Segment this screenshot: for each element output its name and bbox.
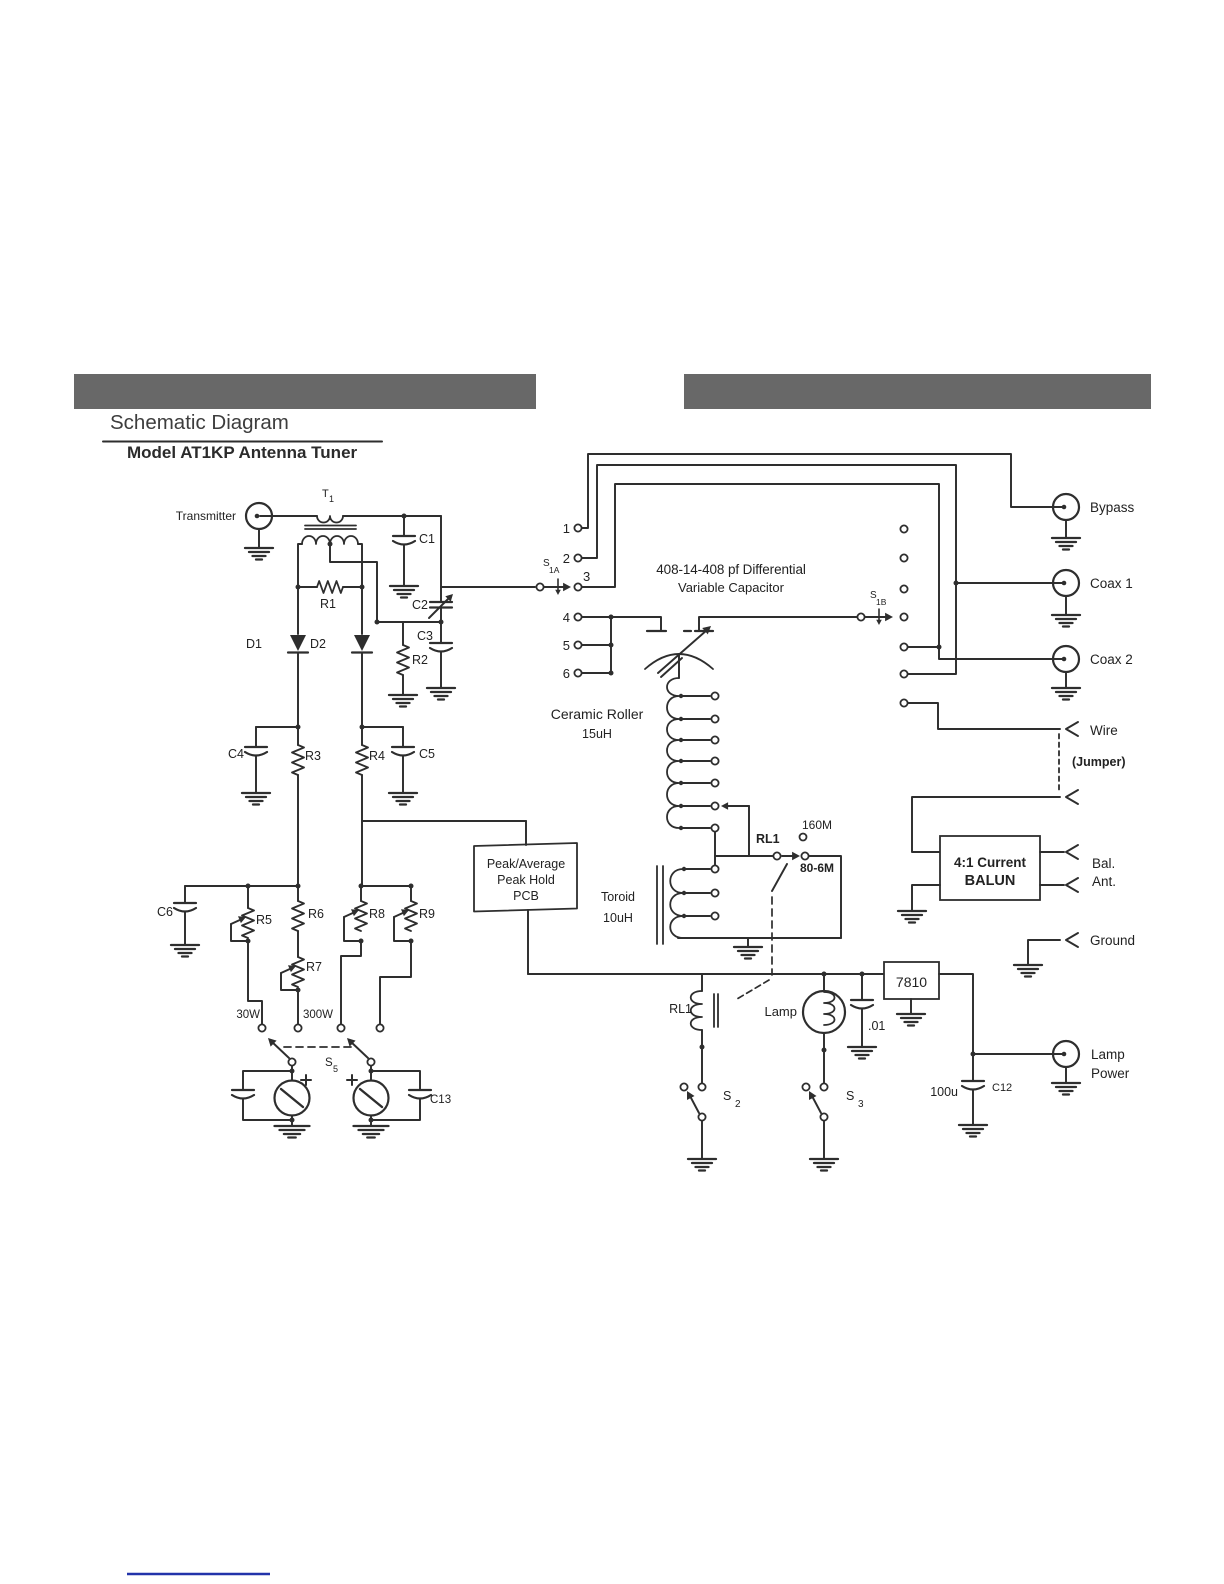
header bar left xyxy=(74,374,536,409)
capacitor C3 xyxy=(417,622,452,687)
resistor R2 xyxy=(397,622,428,694)
diode D1 xyxy=(246,587,308,727)
ground (balun) xyxy=(898,911,926,923)
ground (.01) xyxy=(848,1047,876,1059)
wire contact5 xyxy=(582,643,614,648)
capacitor C2 (variable) xyxy=(412,516,453,625)
contact 7R xyxy=(900,699,1060,729)
ground (Lamp Power) xyxy=(1052,1067,1080,1095)
ground (Ground terminal) xyxy=(1014,965,1042,977)
svg-text:D2: D2 xyxy=(310,637,326,651)
wire contact1 to Bypass xyxy=(582,454,1064,528)
wire R4 to PCB xyxy=(362,820,526,822)
ground (toroid) xyxy=(734,938,762,959)
switch S1A xyxy=(536,558,571,595)
ground (transmitter) xyxy=(245,529,273,560)
wire C2 to S1A xyxy=(441,586,535,588)
module 4:1 Current BALUN xyxy=(940,836,1040,900)
wire contact6 xyxy=(582,671,614,676)
svg-text:1A: 1A xyxy=(549,565,560,575)
svg-text:R1: R1 xyxy=(320,597,336,611)
svg-text:C2: C2 xyxy=(412,598,428,612)
ground (C4) xyxy=(242,793,270,805)
switch S1B xyxy=(857,590,893,625)
contact 4R xyxy=(900,613,907,620)
header bar right xyxy=(684,374,1151,409)
label differential capacitor xyxy=(656,562,806,595)
meter M1 xyxy=(275,1075,312,1116)
svg-text:Ceramic Roller: Ceramic Roller xyxy=(551,706,644,722)
contact 4 xyxy=(563,610,582,625)
ground (Coax 2) xyxy=(1052,672,1080,700)
contact 2R xyxy=(900,554,907,561)
lamp xyxy=(764,974,845,1033)
wire balun ground leg xyxy=(912,885,940,910)
switch S5 link xyxy=(284,1046,352,1048)
svg-text:1B: 1B xyxy=(876,597,887,607)
svg-text:S: S xyxy=(723,1089,731,1103)
svg-text:R4: R4 xyxy=(369,749,385,763)
wire S5 to meter M2 xyxy=(369,1066,374,1081)
svg-text:3: 3 xyxy=(858,1099,864,1110)
svg-text:100u: 100u xyxy=(930,1085,958,1099)
capacitor C-diff rotor xyxy=(645,626,713,678)
wire rail to toroid tap1 xyxy=(714,856,716,865)
wire T1 secondary right leg xyxy=(358,544,362,587)
ground (C5) xyxy=(389,793,417,805)
ground (C6) xyxy=(171,945,199,957)
svg-text:Coax 2: Coax 2 xyxy=(1090,652,1133,667)
connector Coax 1 xyxy=(1053,570,1133,596)
ground (R2) xyxy=(389,695,417,707)
wire bottom bus xyxy=(528,973,884,975)
svg-text:R2: R2 xyxy=(412,653,428,667)
svg-text:300W: 300W xyxy=(303,1009,333,1021)
svg-text:Variable Capacitor: Variable Capacitor xyxy=(678,580,785,595)
svg-text:Peak/Average: Peak/Average xyxy=(487,857,565,871)
wire lamp to S3 xyxy=(822,1033,827,1083)
svg-text:R8: R8 xyxy=(369,907,385,921)
wire contacts 4-6 tie xyxy=(610,617,612,673)
wire R9 to S5 xyxy=(380,941,411,1024)
ground (C1) xyxy=(390,586,418,598)
terminal S5 d xyxy=(376,1024,383,1031)
node lamp top xyxy=(822,972,827,977)
terminal S5 c xyxy=(337,1024,344,1031)
contact 6R xyxy=(900,670,907,677)
wire PCB top xyxy=(525,821,527,845)
switch S5 blade right xyxy=(347,1038,375,1066)
svg-text:R3: R3 xyxy=(305,749,321,763)
svg-text:Power: Power xyxy=(1091,1066,1130,1081)
wire roller tap7 down xyxy=(714,832,716,856)
svg-text:C1: C1 xyxy=(419,532,435,546)
wire feed to balun xyxy=(912,797,1060,852)
wire T1 primary to C1/C2 xyxy=(343,515,441,517)
svg-text:T: T xyxy=(322,488,329,500)
wire center tap to C2/C3 junction xyxy=(330,544,441,625)
relay RL1 coil xyxy=(669,974,718,1030)
wire left rail xyxy=(185,884,301,889)
svg-text:R6: R6 xyxy=(308,907,324,921)
capacitor C5 xyxy=(362,727,435,792)
contact 5 xyxy=(563,638,582,653)
contact 2 xyxy=(563,551,582,566)
inductor L2 toroid coil xyxy=(670,869,683,938)
terminal 300W xyxy=(294,1009,333,1032)
svg-text:Peak Hold: Peak Hold xyxy=(497,873,555,887)
diode D2 xyxy=(310,587,372,727)
svg-text:C4: C4 xyxy=(228,747,244,761)
wire to Coax 1 xyxy=(956,582,1064,584)
svg-text:Model AT1KP Antenna Tuner: Model AT1KP Antenna Tuner xyxy=(127,443,358,462)
svg-text:4:1 Current: 4:1 Current xyxy=(954,855,1027,870)
capacitor C13 xyxy=(369,1071,452,1123)
node .01 top xyxy=(860,972,865,977)
svg-text:(Jumper): (Jumper) xyxy=(1072,755,1125,769)
relay RL1 switch xyxy=(756,832,809,860)
svg-text:BALUN: BALUN xyxy=(965,873,1016,889)
svg-text:1: 1 xyxy=(329,494,334,504)
svg-text:Transmitter: Transmitter xyxy=(176,509,236,523)
switch S5 blade left xyxy=(267,1037,296,1066)
node center tap xyxy=(328,542,333,547)
subtitle Model AT1KP Antenna Tuner xyxy=(127,443,358,462)
svg-text:Coax 1: Coax 1 xyxy=(1090,576,1133,591)
contact 3R xyxy=(900,585,907,592)
jumper dashed xyxy=(1059,734,1125,792)
svg-text:Bypass: Bypass xyxy=(1090,500,1135,515)
contact 1 xyxy=(563,521,582,536)
capacitor C12 xyxy=(930,1054,1012,1124)
label Toroid xyxy=(601,890,635,925)
ground (S3) xyxy=(810,1121,838,1171)
svg-text:R9: R9 xyxy=(419,907,435,921)
svg-text:5: 5 xyxy=(333,1064,338,1074)
resistor R3 xyxy=(292,727,321,886)
relay RL1 link dashed xyxy=(737,897,772,999)
wire contact3 to Coax2 xyxy=(582,484,1064,659)
resistor R1 xyxy=(296,581,365,611)
svg-text:Schematic Diagram: Schematic Diagram xyxy=(110,411,289,434)
resistor R6 xyxy=(292,886,324,931)
wire RL1 coil to S2 xyxy=(700,1030,705,1083)
svg-text:10uH: 10uH xyxy=(603,911,633,925)
transformer T1 xyxy=(302,488,358,544)
node A (T1 top / C1) xyxy=(402,514,407,519)
wire contact4 to C-diff xyxy=(582,615,661,632)
ground (Bypass) xyxy=(1052,520,1080,550)
potentiometer R7 xyxy=(281,931,322,993)
connector Transmitter xyxy=(176,503,272,529)
inductor L2 taps xyxy=(682,865,719,919)
capacitor C6 xyxy=(157,886,196,944)
svg-text:15uH: 15uH xyxy=(582,727,612,741)
svg-text:Lamp: Lamp xyxy=(764,1004,797,1019)
svg-text:Wire: Wire xyxy=(1090,723,1118,738)
svg-text:160M: 160M xyxy=(802,818,832,832)
svg-text:6: 6 xyxy=(563,666,570,681)
ground (C12) xyxy=(959,1125,987,1137)
wire S5 to meter M1 xyxy=(290,1066,295,1081)
capacitor .01 xyxy=(851,974,885,1046)
contact 160M xyxy=(800,818,833,841)
ground (7810) xyxy=(897,999,925,1026)
wire T1 secondary left leg xyxy=(298,544,302,587)
title Schematic Diagram xyxy=(110,411,289,434)
svg-text:C6: C6 xyxy=(157,905,173,919)
connector Bypass xyxy=(1053,494,1135,520)
svg-text:Lamp: Lamp xyxy=(1091,1047,1125,1062)
contact 80-6M label xyxy=(800,861,834,875)
title underline xyxy=(103,441,382,443)
terminal 30W xyxy=(236,1009,265,1032)
svg-text:RL1: RL1 xyxy=(756,832,780,846)
contact 6 xyxy=(563,666,582,681)
svg-text:7810: 7810 xyxy=(896,974,927,990)
module Peak/Average Peak Hold PCB xyxy=(474,843,577,912)
wire contact2 to contact6R xyxy=(582,465,959,674)
wire PCB bottom to bus xyxy=(527,910,529,974)
svg-text:2: 2 xyxy=(563,551,570,566)
svg-text:S: S xyxy=(846,1089,854,1103)
svg-text:S: S xyxy=(325,1057,333,1069)
potentiometer R8 xyxy=(344,886,385,944)
capacitor (M1 shunt) xyxy=(232,1071,295,1123)
node C12 top xyxy=(971,1052,976,1057)
svg-text:C13: C13 xyxy=(430,1094,451,1106)
wire 7810 out xyxy=(939,974,973,1054)
inductor L1 ceramic roller coil xyxy=(667,678,679,828)
svg-text:Bal.: Bal. xyxy=(1092,856,1115,871)
capacitor C1 xyxy=(393,516,435,585)
svg-text:2: 2 xyxy=(735,1099,741,1110)
connector Coax 2 xyxy=(1053,646,1133,672)
svg-text:5: 5 xyxy=(563,638,570,653)
wire to Lamp Power xyxy=(973,1053,1064,1055)
svg-text:C12: C12 xyxy=(992,1082,1012,1094)
svg-text:30W: 30W xyxy=(236,1009,260,1021)
contact 3 xyxy=(574,569,590,591)
wire right rail xyxy=(359,884,414,889)
switch S2 xyxy=(680,1083,741,1120)
svg-text:80-6M: 80-6M xyxy=(800,861,834,875)
wire toroid bottom xyxy=(678,937,841,939)
ground (Coax 1) xyxy=(1052,596,1080,627)
svg-text:C3: C3 xyxy=(417,629,433,643)
svg-text:PCB: PCB xyxy=(513,889,539,903)
regulator 7810 xyxy=(884,962,939,999)
relay RL1 blade xyxy=(772,864,787,891)
ground (M1) xyxy=(275,1116,310,1138)
inductor L1 taps xyxy=(679,692,719,831)
svg-text:3: 3 xyxy=(583,569,590,584)
wire 80-6M to toroid bottom xyxy=(809,856,841,938)
terminal Bal 2 xyxy=(1066,856,1116,892)
potentiometer R9 xyxy=(394,886,435,944)
wire R8 to S5 xyxy=(341,941,361,1024)
node D2/C5/R4 xyxy=(360,725,365,730)
inductor L2 toroid core xyxy=(657,866,663,944)
ground (C3) xyxy=(427,688,455,700)
capacitor C-diff plates xyxy=(647,630,713,632)
contact 5R xyxy=(900,643,939,650)
contact 1R xyxy=(900,525,907,532)
svg-text:R5: R5 xyxy=(256,913,272,927)
label S5 xyxy=(325,1057,338,1074)
meter M2 xyxy=(347,1075,389,1116)
wire balun out 1 xyxy=(1040,851,1064,853)
ground (S2) xyxy=(688,1121,716,1171)
wire transmitter to T1 xyxy=(260,515,317,517)
terminal Wire xyxy=(1066,722,1118,738)
wire R5 to 30W xyxy=(248,941,262,1024)
wire rail to RL1 switch xyxy=(715,855,773,857)
wire balun out 2 xyxy=(1040,884,1064,886)
potentiometer R5 xyxy=(231,886,272,944)
wire 160M tap arrow xyxy=(721,802,749,856)
svg-text:Ground: Ground xyxy=(1090,933,1135,948)
label Ceramic Roller xyxy=(551,706,644,741)
wire R7 to 300W xyxy=(297,990,299,1024)
svg-text:R7: R7 xyxy=(306,960,322,974)
resistor R4 xyxy=(356,727,385,886)
wire C-diff to S1B xyxy=(699,617,857,631)
svg-text:Ant.: Ant. xyxy=(1092,874,1116,889)
connector Lamp Power xyxy=(1053,1041,1130,1081)
svg-text:.01: .01 xyxy=(868,1019,885,1033)
capacitor C4 xyxy=(228,727,298,792)
node D1/C4/R3 xyxy=(296,725,301,730)
svg-text:C5: C5 xyxy=(419,747,435,761)
svg-text:D1: D1 xyxy=(246,637,262,651)
switch S3 xyxy=(802,1083,864,1120)
svg-text:408-14-408 pf Differential: 408-14-408 pf Differential xyxy=(656,562,806,577)
terminal Bal 1 xyxy=(1066,845,1078,859)
terminal antenna feed xyxy=(1066,790,1078,804)
svg-text:Toroid: Toroid xyxy=(601,890,635,904)
svg-text:1: 1 xyxy=(563,521,570,536)
terminal Ground xyxy=(1028,933,1135,964)
ground (M2) xyxy=(354,1116,389,1138)
svg-text:RL1: RL1 xyxy=(669,1002,692,1016)
footer blue line xyxy=(127,1573,270,1576)
svg-text:4: 4 xyxy=(563,610,570,625)
